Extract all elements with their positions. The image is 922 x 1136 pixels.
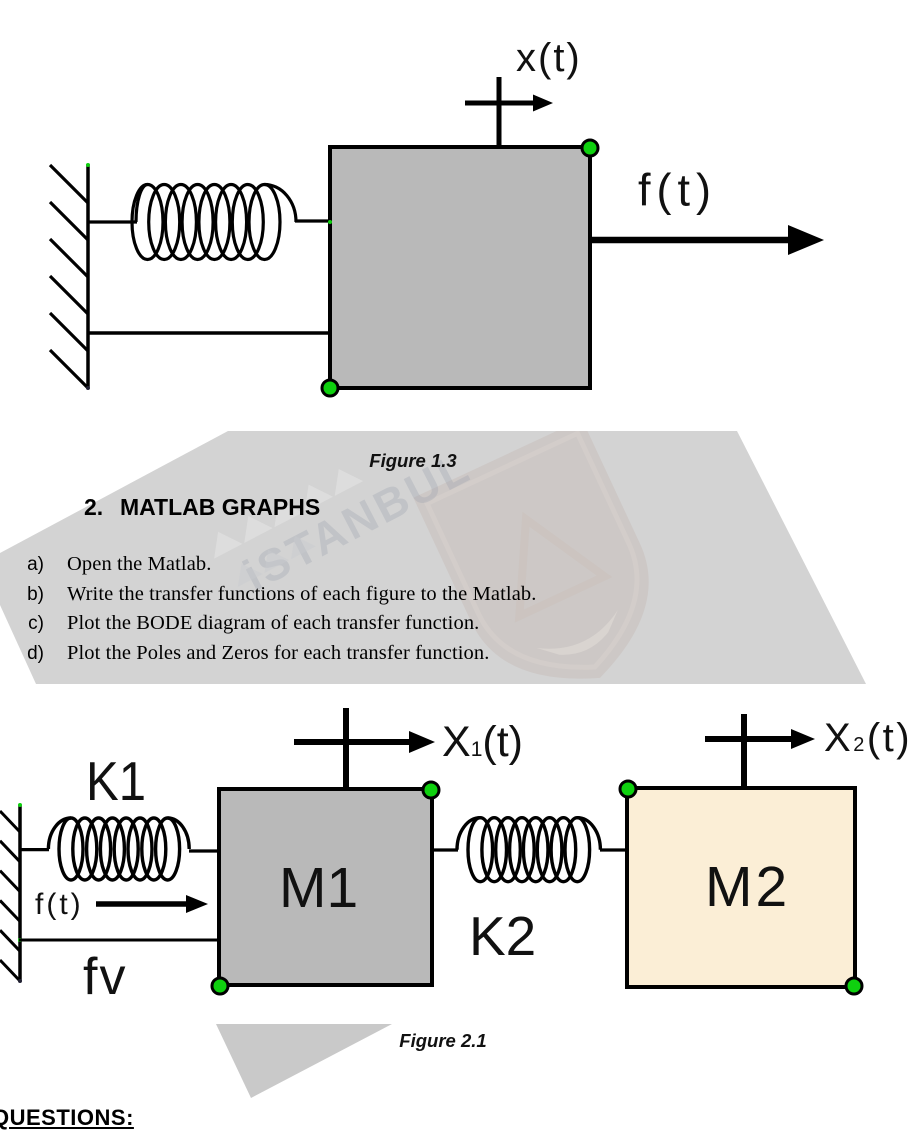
svg-text:f(t): f(t): [35, 888, 84, 921]
svg-text:K1: K1: [86, 750, 146, 812]
svg-text:M1: M1: [279, 856, 358, 920]
svg-text:fv: fv: [83, 948, 127, 1006]
svg-text:X1(t): X1(t): [442, 718, 523, 766]
svg-text:x(t): x(t): [516, 36, 582, 80]
svg-text:M2: M2: [705, 855, 790, 919]
svg-text:f(t): f(t): [638, 165, 717, 216]
svg-text:K2: K2: [469, 905, 536, 967]
svg-text:X2(t): X2(t): [824, 716, 912, 760]
